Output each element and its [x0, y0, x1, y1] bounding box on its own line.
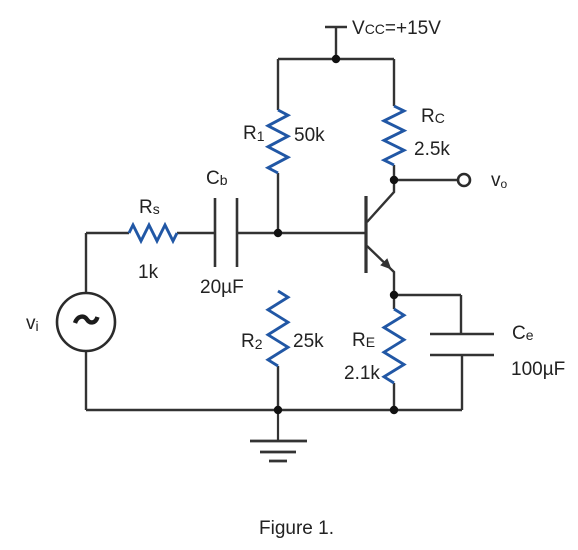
svg-text:100µF: 100µF — [511, 359, 565, 380]
wire right branch top — [393, 59, 395, 106]
resistor Rs — [129, 225, 177, 241]
source vi — [57, 293, 115, 351]
wire output — [394, 179, 457, 181]
svg-text:Cb: Cb — [206, 168, 228, 189]
svg-text:RE: RE — [352, 330, 375, 351]
svg-text:vi: vi — [26, 313, 39, 334]
resistor RE — [384, 309, 404, 383]
wire base node to transistor — [238, 232, 365, 234]
capacitor Ce — [430, 334, 494, 355]
node junction dots — [274, 55, 398, 414]
wire R2 bottom — [277, 366, 279, 410]
wire Ce top lead — [460, 295, 462, 334]
svg-text:VCC=+15V: VCC=+15V — [352, 18, 441, 39]
power VCC symbol — [325, 27, 347, 59]
svg-text:1k: 1k — [138, 262, 159, 283]
wire RE top lead — [393, 295, 395, 309]
svg-text:Figure 1.: Figure 1. — [259, 518, 334, 539]
svg-text:2.5k: 2.5k — [414, 139, 450, 160]
ground — [250, 410, 307, 461]
wire Ce bottom lead — [461, 355, 463, 410]
svg-text:20µF: 20µF — [200, 277, 244, 298]
wire top rail — [278, 58, 394, 60]
wire emitter node right — [394, 294, 461, 296]
node output terminal — [458, 174, 470, 186]
svg-text:Rs: Rs — [139, 197, 160, 218]
capacitor Cb — [215, 198, 237, 267]
wire source top — [85, 233, 87, 293]
svg-text:Ce: Ce — [512, 323, 534, 344]
svg-text:RC: RC — [421, 106, 445, 127]
wire Rs right lead — [177, 232, 214, 234]
wire Rs left lead — [86, 232, 129, 234]
svg-text:25k: 25k — [293, 331, 324, 352]
wire bottom rail — [86, 409, 462, 411]
wire R1 to base node — [277, 173, 279, 233]
wire left branch top — [277, 59, 279, 110]
svg-text:50k: 50k — [294, 125, 325, 146]
wire source bottom — [85, 351, 87, 410]
wire RC to collector node — [393, 165, 395, 180]
wire RE bottom lead — [393, 383, 395, 410]
transistor Q1 — [366, 180, 394, 295]
svg-text:R2: R2 — [241, 331, 263, 352]
svg-text:vo: vo — [491, 170, 508, 191]
resistor R1 — [268, 110, 288, 173]
resistor RC — [384, 106, 404, 165]
resistor R2 — [268, 291, 288, 366]
svg-text:R1: R1 — [243, 123, 265, 144]
svg-text:2.1k: 2.1k — [344, 363, 380, 384]
